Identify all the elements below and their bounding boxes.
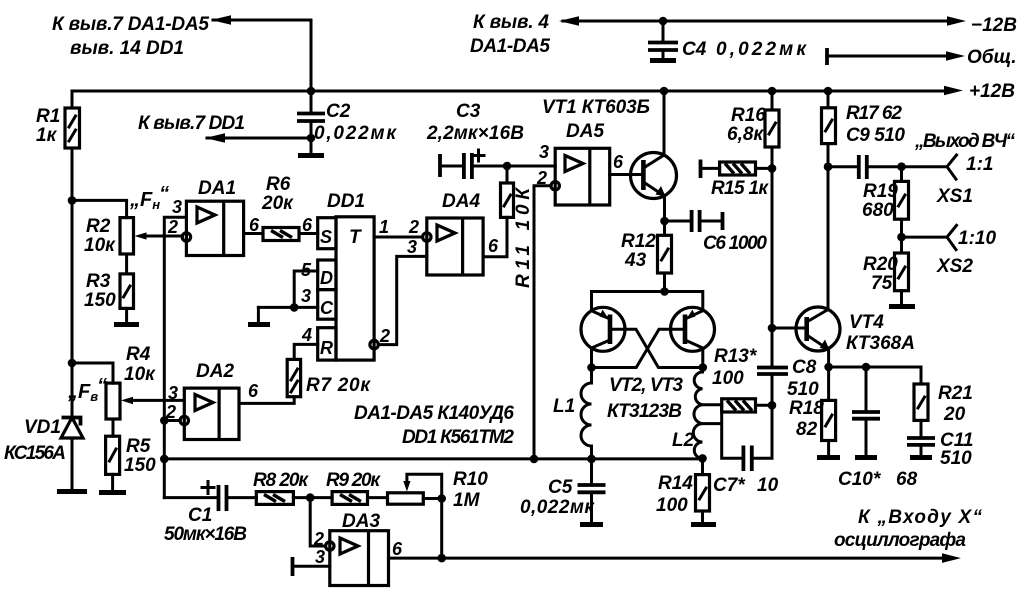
svg-text:6: 6 [248,381,259,401]
svg-text:3: 3 [172,197,182,217]
resistor R6 [261,174,299,241]
wire DA5 pin2 down to feedback line [534,186,551,459]
wire DA5 pin6 to VT1 base [610,173,644,176]
svg-text:2,2мк×16В: 2,2мк×16В [426,123,524,144]
wire: +12V rail [72,90,945,93]
svg-text:680: 680 [862,200,894,221]
svg-text:VD1: VD1 [24,417,61,438]
wire DD1 C input [258,306,317,309]
svg-text:R15 1к: R15 1к [711,178,769,199]
svg-text:С1: С1 [188,505,212,526]
svg-text:XS2: XS2 [936,256,973,277]
svg-text:510: 510 [787,379,819,400]
bubble DA2 pin2 [180,416,188,424]
ground under R20 [900,291,903,304]
wire R8 to R9 [293,496,332,499]
svg-text:3: 3 [407,237,417,257]
wire to VT4 base [772,327,807,330]
svg-text:R: R [320,338,333,358]
node R13 right [768,401,777,410]
terminal bar common rail [825,48,829,65]
node C9/R19 [897,162,906,171]
svg-text:150: 150 [84,290,116,311]
svg-text:50мк×16В: 50мк×16В [164,524,247,545]
node: R1/R2 junction [68,196,77,205]
svg-text:К выв.7 DA1-DA5: К выв.7 DA1-DA5 [52,14,209,35]
wire R2 wiper to DA1 pin2 [141,235,182,238]
wire to XS2 [902,236,948,239]
wire emitter node right [829,367,921,384]
svg-text:R3: R3 [86,271,111,292]
resistor R21 [914,383,973,425]
svg-text:С5: С5 [548,477,573,498]
resistor R18 [789,367,840,458]
svg-text:0,022мк: 0,022мк [520,497,595,518]
transistor VT3 [671,307,715,367]
wire R1 to VD1 [71,148,74,420]
wire DD1 D input [294,271,318,307]
transistor VT1 [631,91,677,235]
wire R19 to R20 [900,219,903,253]
wire to R2 top [72,200,127,217]
svg-text:20к: 20к [261,193,294,214]
svg-text:VT1 КТ603Б: VT1 КТ603Б [542,97,650,118]
svg-text:R18: R18 [789,398,824,419]
ground under R3 [125,308,128,322]
flip-flop DD1 box [318,191,374,360]
svg-text:R9 20к: R9 20к [326,470,381,491]
wire R11 to C3 node [506,166,509,183]
svg-text:6: 6 [613,152,624,172]
svg-text:6: 6 [488,236,499,256]
wire DD1 pin1 to DA4 pin2 [374,236,423,239]
arrow to text К выв.7 DA1-DA5 [211,15,231,25]
wire DD1 R input [294,344,318,359]
wire DA1 pin6 to R6 [244,232,263,235]
svg-text:2: 2 [167,217,178,237]
svg-text:10к: 10к [84,235,116,256]
svg-text:R2: R2 [86,216,111,237]
svg-text:DA2: DA2 [196,361,234,382]
resistor R14 [656,458,716,524]
svg-text:43: 43 [624,250,647,271]
resistor R13 [703,346,773,412]
wire R2 to R3 [125,254,128,274]
node VT3 collector [699,363,708,372]
svg-text:К выв.7 DD1: К выв.7 DD1 [138,113,245,134]
wire DA3 out long line to oscilloscope [389,557,945,560]
op-amp DA4 [427,191,483,275]
cross coupling wires [610,329,703,367]
wire L2 tap2 to C7 [703,405,743,458]
bubble DA3 pin2 [326,542,334,550]
arrow Общ. [946,51,965,61]
capacitor C11 [907,420,973,469]
bubble DA5 pin2 [551,182,559,190]
node: C2 on +12V rail [307,87,316,96]
svg-text:6: 6 [392,539,403,559]
svg-text:R7 20к: R7 20к [306,375,371,396]
node: R17 on +12V rail [824,87,833,96]
wire R17 down to VT4 collector [827,144,830,309]
op-amp DA5 [555,121,610,205]
svg-text:R5: R5 [126,436,151,457]
wire DA1 pin3 down to DA2/C1 [164,217,186,497]
svg-text:2: 2 [379,326,390,346]
svg-text:+12В: +12В [969,81,1015,102]
node: R12 feed on multivibrator rail [660,287,669,296]
node L1 bottom [587,455,596,464]
resistor R15 [701,160,773,200]
svg-text:100: 100 [656,495,688,516]
svg-text:DA5: DA5 [566,121,604,142]
node: C2 bottom / DD1 pin7 [307,134,316,143]
node feedback line start [160,455,169,464]
arrow -12V [947,16,966,26]
svg-text:S: S [320,227,332,247]
svg-text:R13*: R13* [714,346,758,367]
svg-text:R16: R16 [731,105,766,126]
svg-text:К выв. 4: К выв. 4 [473,12,549,33]
resistor R16 [727,91,779,147]
wire DA4 pin6 to R11 [483,217,507,256]
ground at C input [257,307,260,322]
svg-text:С2: С2 [326,101,351,122]
svg-text:75: 75 [871,273,893,294]
svg-text:20: 20 [943,404,966,425]
resistor R1 [36,91,80,148]
bubble DA4 pin2 [423,233,431,241]
capacitor C2 [297,91,397,156]
resistor R17 [822,91,903,144]
svg-text:DD1 К561ТМ2: DD1 К561ТМ2 [402,427,514,448]
svg-text:VT4: VT4 [849,312,884,333]
node: R15/R16 junction [768,164,777,173]
wire R7 to DA2 out [239,397,294,404]
svg-text:С7*: С7* [713,475,746,496]
wire: long feedback line [164,457,702,460]
wire DD1 pin2 to DA4 pin3 [378,256,427,344]
resistor R11 [501,183,535,288]
capacitor C5 [520,459,606,525]
arrow to text К выв.7 DD1 [205,133,225,143]
svg-text:10: 10 [757,475,779,496]
svg-text:осциллографа: осциллографа [834,530,966,551]
svg-text:R19: R19 [863,181,898,202]
node VT4 emitter [824,363,833,372]
svg-text:КТ368А: КТ368А [846,333,915,354]
svg-text:С9 510: С9 510 [846,125,905,146]
svg-text:3: 3 [539,142,549,162]
svg-text:L2: L2 [672,430,695,451]
svg-text:VT2, VT3: VT2, VT3 [609,375,683,396]
wire R6 to DD1 S [299,232,318,235]
zener VD1 [4,417,87,492]
arrow to text К выв. 4 [559,16,579,26]
op-amp DA2 [184,361,239,440]
wire: -12V rail [563,20,947,23]
svg-text:КТ3123В: КТ3123В [607,401,682,422]
svg-text:К „Входу Х“: К „Входу Х“ [858,507,983,528]
potentiometer R4 [106,344,156,419]
svg-text:R10: R10 [453,469,488,490]
wire R4 to R5 [112,419,115,436]
bubble DA1 pin2 [182,233,190,241]
node: R1/R4/VD1 junction [68,359,77,368]
resistor R5 [106,436,157,476]
capacitor C9 [828,125,947,179]
svg-text:6: 6 [302,215,313,235]
svg-text:150: 150 [124,455,156,476]
node: VT4 base junction [768,324,777,333]
arrow +12V [944,86,963,96]
capacitor C8 [757,357,819,400]
wire R4 wiper to DA2 pin3 [128,399,184,402]
svg-text:C: C [320,298,334,318]
svg-text:DA3: DA3 [342,511,380,532]
inductor L1 [553,368,592,459]
capacitor C7 [713,375,779,497]
node: C10 branch [862,363,871,372]
ground under R5 [111,474,114,490]
svg-text:выв. 14 DD1: выв. 14 DD1 [70,38,184,59]
svg-text:R1: R1 [36,106,60,127]
svg-text:D: D [320,268,333,288]
transistor VT2 [581,307,625,367]
node: R10 branch on output line [437,554,446,563]
potentiometer R10 [388,469,489,558]
svg-text:R17 62: R17 62 [846,103,902,124]
svg-text:DA1: DA1 [198,178,236,199]
svg-text:10к: 10к [124,364,156,385]
node: R8/R9/DA3 pin2 junction [306,493,315,502]
inductor L2 [672,368,703,459]
resistor R7 [287,359,371,396]
svg-text:С10*: С10* [838,469,882,490]
svg-text:DA1-DA5: DA1-DA5 [470,36,550,57]
wire R16 down to C8 [771,147,774,367]
svg-text:1к: 1к [36,125,58,146]
op-amp DA3 [330,511,389,586]
svg-text:82: 82 [796,419,818,440]
svg-text:R20: R20 [863,254,898,275]
svg-text:С3: С3 [456,101,481,122]
arrow to oscilloscope [942,553,961,563]
resistor R3 [84,271,134,311]
svg-text:3: 3 [168,383,178,403]
svg-text:С8: С8 [792,357,817,378]
svg-text:С4: С4 [682,39,707,60]
node: R10/wiper junction [437,494,446,503]
svg-text:1:1: 1:1 [966,154,993,175]
svg-text:4: 4 [301,325,312,345]
wire R9 to R10 [368,496,388,499]
resistor R20 [863,253,909,294]
svg-text:T: T [349,227,362,248]
svg-text:1: 1 [379,217,389,237]
svg-text:DA1-DA5 К140УД6: DA1-DA5 К140УД6 [354,403,514,424]
svg-text:R4: R4 [126,344,151,365]
svg-text:L1: L1 [553,396,575,417]
svg-text:„Выход ВЧ“: „Выход ВЧ“ [914,131,1016,152]
node: R19/R20/XS2 junction [897,233,906,242]
svg-text:XS1: XS1 [936,186,973,207]
svg-text:100: 100 [712,368,744,389]
node L2 bottom / R14 [698,454,707,463]
transistor VT4 [796,144,915,367]
connector XS1 fork [947,155,957,179]
wire R12 to multivibrator [663,273,666,292]
svg-text:R6: R6 [266,174,291,195]
svg-text:2: 2 [408,217,419,237]
wire R10 right [423,497,441,500]
wire: common rail Общ. [827,55,947,58]
svg-text:3: 3 [301,286,311,306]
node VT2 collector [587,363,596,372]
resistor R9 [326,470,381,504]
svg-text:3: 3 [315,547,325,567]
bubble DD1 pin2 [370,340,378,348]
resistor R8 [253,470,309,504]
node: C9 branch on R17 line [824,162,833,171]
capacitor C6 [665,210,768,254]
node: DA5 pin2 on feedback line [530,455,539,464]
connector XS2 fork [947,225,957,249]
svg-text:R8 20к: R8 20к [253,470,309,491]
svg-text:КС156А: КС156А [4,443,66,464]
svg-text:510: 510 [940,448,972,469]
wire multivibrator top rail [592,292,703,311]
svg-text:68: 68 [896,469,918,490]
svg-text:Общ.: Общ. [967,47,1017,68]
wire: к выв.7 DD1 stub [207,137,311,140]
svg-text:DA4: DA4 [442,191,480,212]
svg-text:R21: R21 [938,383,973,404]
wire to R4 top [72,363,113,383]
capacitor C1 [164,482,256,546]
svg-text:−12В: −12В [971,15,1017,36]
op-amp DA1 [186,178,243,256]
wire C3 node to DA5 pin3 [507,165,555,168]
resistor R19 [862,167,909,221]
node: VT1 collector on +12V rail [660,87,669,96]
svg-text:6,8к: 6,8к [727,124,764,145]
svg-text:С6 1000: С6 1000 [703,233,767,254]
svg-text:1:10: 1:10 [958,228,996,249]
svg-text:1М: 1М [453,490,481,511]
svg-text:2: 2 [313,529,324,549]
node: C3/R11/DA5 pin3 junction [503,162,512,171]
wire DA3 pin3 to terminal [294,565,330,568]
resistor R12 [621,231,672,273]
svg-text:DD1: DD1 [327,191,365,212]
svg-text:R12: R12 [621,231,656,252]
capacitor C10 [838,367,918,490]
node: R16 on +12V rail [768,87,777,96]
wire to DA3 pin2 [310,498,325,546]
node: D/C junction [290,303,299,312]
svg-text:R14: R14 [658,473,693,494]
capacitor C3 [426,101,524,179]
potentiometer R2 [84,216,147,256]
wire DA2 pin2 to vertical [164,419,180,422]
node: DA2 pin2 junction [160,416,169,425]
capacitor C4 [648,17,807,61]
wire: к выв.7 DA1-DA5 stub [213,20,311,91]
node VT1 emitter / C6 [660,217,669,226]
